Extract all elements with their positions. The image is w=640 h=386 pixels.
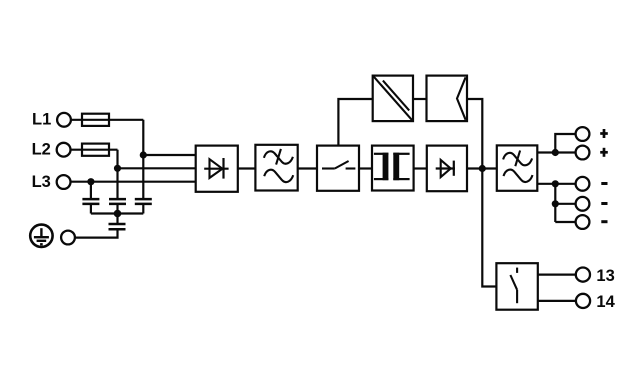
wire K1 output 13 bbox=[538, 274, 576, 276]
node junction output bbox=[479, 165, 486, 172]
wire rectifier input 1 bbox=[143, 154, 195, 156]
wire below C1 bbox=[90, 204, 92, 214]
label minus 1 bbox=[601, 182, 607, 185]
wire plus branch up bbox=[555, 134, 575, 153]
wire rectifier input 2 bbox=[118, 167, 196, 169]
wire U5 minus output bbox=[537, 183, 555, 185]
svg-text:L1: L1 bbox=[32, 111, 51, 129]
capacitor C2 bbox=[109, 199, 126, 204]
relay block K1 bbox=[496, 263, 537, 310]
terminal plus 2 bbox=[576, 146, 590, 160]
wire minus branch 3 bbox=[555, 221, 575, 223]
wire S1 to T1 bbox=[359, 167, 372, 169]
diode D1 symbol bbox=[436, 160, 455, 177]
terminal L2 bbox=[57, 143, 71, 157]
terminal 14 bbox=[576, 294, 590, 308]
label plus 2 bbox=[600, 148, 608, 157]
node junction L2 bbox=[114, 165, 121, 172]
fuse F2 bbox=[82, 144, 109, 156]
wire L2 vertical drop bbox=[116, 150, 118, 199]
node junction L3 bbox=[87, 178, 94, 185]
terminal 13 bbox=[576, 268, 590, 282]
wire L3 vertical drop bbox=[90, 182, 92, 199]
terminal L1 bbox=[57, 113, 71, 127]
regulator block U4 bbox=[427, 76, 468, 122]
terminal minus 3 bbox=[576, 215, 590, 229]
wire minus bus down bbox=[554, 184, 556, 222]
wire T1 to D1 bbox=[414, 167, 427, 169]
switch block S1 bbox=[317, 146, 359, 191]
wire minus branch 1 bbox=[555, 183, 575, 185]
filter block U2 bbox=[255, 145, 297, 191]
capacitor C4 bbox=[109, 224, 126, 229]
wire L1 vertical drop bbox=[142, 120, 144, 199]
filter U5 sine plain bbox=[504, 170, 533, 182]
rectifier diode symbol bbox=[204, 158, 228, 179]
wire U5 plus output bbox=[537, 151, 555, 153]
wire C4 to PE terminal bbox=[75, 229, 118, 237]
wire K1 output 14 bbox=[538, 300, 576, 302]
wire D1 to U5 bbox=[467, 167, 497, 169]
dc converter block U3 bbox=[373, 76, 413, 122]
svg-text:14: 14 bbox=[596, 293, 615, 311]
filter U2 sine with slash bbox=[264, 149, 293, 165]
dc converter diagonal symbol bbox=[374, 77, 412, 121]
label minus 3 bbox=[601, 220, 607, 223]
node junction minus 2 bbox=[552, 200, 559, 207]
filter block U5 bbox=[497, 145, 538, 190]
wire below C2 bbox=[116, 204, 118, 214]
switch S1 contact symbol bbox=[322, 161, 355, 169]
wire plus branch straight bbox=[555, 151, 575, 153]
label plus 1 bbox=[600, 129, 608, 138]
terminal plus 1 bbox=[576, 127, 590, 141]
node junction minus 1 bbox=[552, 180, 559, 187]
wire above C4 bbox=[116, 214, 118, 225]
terminal minus 2 bbox=[576, 197, 590, 211]
svg-text:13: 13 bbox=[596, 267, 614, 285]
wire U1 to U2 bbox=[238, 167, 256, 169]
regulator chevron symbol bbox=[457, 77, 466, 120]
terminal PE bbox=[61, 231, 75, 245]
terminal L3 bbox=[57, 175, 71, 189]
filter U5 sine with slash bbox=[503, 151, 532, 167]
terminal minus 1 bbox=[576, 177, 590, 191]
node junction L1 bbox=[140, 151, 147, 158]
fuse F1 bbox=[82, 114, 109, 126]
filter U2 sine plain bbox=[264, 170, 293, 182]
wire L2 horizontal bbox=[71, 149, 118, 151]
diode block D1 bbox=[427, 146, 467, 192]
wire L1 horizontal bbox=[71, 119, 143, 121]
svg-text:L3: L3 bbox=[32, 173, 51, 191]
wire rectifier input 3 bbox=[71, 181, 196, 183]
transformer block T1 bbox=[372, 146, 414, 191]
node junction bus bbox=[114, 210, 122, 218]
earth symbol PE bbox=[30, 225, 52, 247]
wire output node to relay K1 bbox=[482, 169, 496, 287]
svg-text:L2: L2 bbox=[32, 141, 51, 159]
wire U2 to S1 bbox=[298, 167, 317, 169]
capacitor C1 bbox=[82, 199, 99, 204]
wire minus branch 2 bbox=[555, 203, 575, 205]
transformer winding symbol bbox=[374, 153, 410, 181]
wire U4 to output node bbox=[467, 99, 482, 169]
node junction plus bbox=[552, 149, 559, 156]
wire capacitor bus bbox=[91, 212, 143, 214]
capacitor C3 bbox=[135, 199, 152, 204]
wire U3 to U4 bbox=[413, 98, 427, 100]
rectifier block U1 bbox=[196, 146, 238, 192]
wire below C3 bbox=[142, 204, 144, 214]
wire S1 top to U3 bbox=[338, 99, 372, 146]
relay contact symbol bbox=[510, 268, 517, 304]
label minus 2 bbox=[601, 202, 607, 205]
